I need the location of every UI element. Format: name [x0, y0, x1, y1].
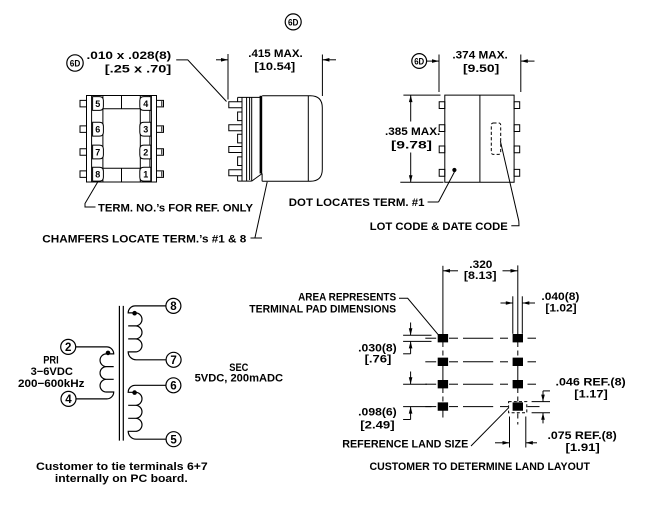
terminal stub 3 (side) — [229, 147, 242, 153]
svg-text:2: 2 — [65, 342, 71, 354]
pin 4 circle — [61, 391, 76, 406]
svg-text:LOT CODE & DATE CODE: LOT CODE & DATE CODE — [370, 221, 508, 233]
header bottom edge — [238, 180, 252, 182]
row4 centerline (dash-dot) — [425, 406, 436, 408]
svg-text:[10.54]: [10.54] — [254, 61, 295, 73]
svg-text:TERMINAL PAD DIMENSIONS: TERMINAL PAD DIMENSIONS — [249, 304, 396, 316]
svg-text:5VDC, 200mADC: 5VDC, 200mADC — [195, 373, 284, 385]
dim .030 extension lines — [403, 334, 431, 336]
header inner vertical lines — [246, 97, 248, 181]
leader from pad 8 to note — [85, 182, 98, 208]
leader from chamfer to note — [255, 182, 267, 238]
dim .030 arrow above — [410, 323, 412, 336]
pin 6 stub — [80, 126, 87, 132]
terminal pad 8 — [93, 167, 104, 181]
pin 6 circle — [166, 378, 181, 393]
balloon 6D (left) — [67, 55, 83, 71]
svg-text:PRI: PRI — [43, 355, 59, 367]
pin 8 stub — [80, 171, 87, 178]
castellation notch 3 — [238, 157, 242, 166]
svg-text:.098(6): .098(6) — [358, 407, 397, 419]
right column vertical dashed row1-row2 — [517, 342, 519, 358]
pin 3 stub — [157, 126, 164, 132]
pin 3 (right, end view) — [514, 146, 520, 153]
svg-text:AREA REPRESENTS: AREA REPRESENTS — [298, 291, 396, 303]
inner side wall lines — [91, 96, 93, 183]
bottom core strip — [103, 167, 140, 169]
dim .098 arrow above — [410, 372, 412, 385]
dim .046 arrow above with bracket — [542, 391, 544, 402]
pin 5 stub — [80, 100, 87, 107]
dim .098 extension lines — [403, 383, 427, 385]
row3 centerline (dash-dot) — [425, 383, 436, 385]
dim .320 arrow left — [443, 270, 458, 272]
svg-text:Customer to tie terminals 6+7: Customer to tie terminals 6+7 — [36, 461, 208, 473]
svg-text:.320: .320 — [469, 259, 492, 271]
pin 2 stub — [157, 149, 164, 156]
dim .075 extension line left — [509, 417, 511, 448]
dim .385 extension line top — [403, 94, 440, 96]
terminal pad 3 — [140, 122, 151, 136]
svg-text:[1.91]: [1.91] — [566, 442, 601, 454]
castellation half notch bottom — [237, 176, 239, 181]
body outline (end view) — [445, 95, 514, 182]
package body outline (top view) — [87, 96, 157, 183]
pad numbers left column 5,6,7,8 — [95, 99, 148, 180]
svg-text:CUSTOMER TO DETERMINE LAND LAY: CUSTOMER TO DETERMINE LAND LAYOUT — [370, 461, 591, 473]
leader tick from chamfer note — [251, 237, 263, 239]
svg-text:6D: 6D — [288, 17, 299, 27]
svg-text:6D: 6D — [414, 57, 424, 67]
dim .374 arrow right — [521, 60, 535, 62]
right column vertical: solid above row1 (.320 ext) — [517, 265, 519, 334]
terminal pad land row1 left — [438, 335, 447, 342]
svg-text:TERM. NO.’s FOR REF. ONLY: TERM. NO.’s FOR REF. ONLY — [98, 203, 254, 215]
svg-text:[8.13]: [8.13] — [464, 270, 497, 282]
primary winding with leads (pins 2-4) — [76, 347, 114, 399]
SECTION: schematic — [18, 298, 283, 485]
svg-text:[.76]: [.76] — [365, 353, 392, 365]
dim .415 arrow left — [216, 59, 228, 61]
castellation notch 2 — [238, 134, 242, 143]
header top edge — [238, 96, 262, 98]
body outline (side view) — [262, 96, 322, 182]
terminal pad land row3 left — [438, 381, 447, 388]
pin 5 circle — [166, 432, 181, 447]
svg-text:.046 REF.(8): .046 REF.(8) — [556, 376, 627, 388]
svg-text:.385 MAX.: .385 MAX. — [385, 126, 440, 138]
svg-text:REFERENCE LAND SIZE: REFERENCE LAND SIZE — [342, 438, 468, 450]
svg-text:[2.49]: [2.49] — [360, 420, 395, 432]
dim .320 arrow right — [503, 270, 518, 272]
svg-text:.374 MAX.: .374 MAX. — [452, 49, 507, 61]
pin 1 (right, end view) — [514, 102, 520, 109]
leader from reference land note to dashed outline — [471, 408, 509, 446]
secondary 2 polarity dot — [132, 390, 137, 395]
svg-text:6: 6 — [170, 380, 176, 392]
secondary winding 2 with leads (pins 6-5) — [128, 385, 166, 439]
dim .374 extension line right — [520, 55, 522, 93]
svg-text:5: 5 — [170, 434, 177, 446]
castellation notch 1 — [238, 112, 242, 121]
left column vertical dashed row1-row2 — [442, 342, 444, 358]
top core strip — [103, 108, 140, 110]
svg-text:[.25 x .70]: [.25 x .70] — [105, 63, 172, 75]
pin 8 circle — [166, 298, 181, 313]
terminal pad land row4 right — [513, 403, 522, 410]
SECTION: right end view — [289, 49, 535, 233]
leader from lot code note to marking area — [500, 141, 519, 226]
pin 6 (left, end view) — [439, 146, 445, 153]
svg-text:3−6VDC: 3−6VDC — [31, 366, 73, 378]
pin 2 (right, end view) — [514, 125, 520, 132]
SECTION: top view package — [42, 96, 262, 246]
dim .030 arrow below with tail — [410, 341, 412, 353]
pin 4 (right, end view) — [514, 169, 520, 176]
terminal pad 7 — [93, 145, 104, 159]
svg-text:4: 4 — [65, 394, 72, 406]
body inner vertical line near rounded end — [307, 96, 309, 182]
leader from dim text to terminal stub — [176, 60, 226, 102]
svg-text:200−600kHz: 200−600kHz — [18, 378, 85, 390]
svg-text:5: 5 — [95, 99, 100, 109]
terminal pad land row2 left — [438, 358, 447, 365]
terminal pad land row1 right — [513, 335, 522, 342]
svg-text:.075 REF.(8): .075 REF.(8) — [548, 430, 618, 442]
svg-text:.010 x .028(8): .010 x .028(8) — [87, 50, 172, 62]
dim .040 extension line right — [521, 296, 523, 334]
pin 7 (left, end view) — [439, 125, 445, 132]
terminal pad 2 — [140, 145, 151, 159]
left column vertical stub below row4 — [442, 410, 444, 417]
balloon 6D (top center) — [285, 14, 301, 30]
svg-text:8: 8 — [95, 170, 100, 180]
dim .415 extension line right — [321, 55, 323, 97]
dim .385 vertical line with arrows (broken at text) — [410, 95, 412, 121]
svg-text:8: 8 — [170, 301, 177, 313]
SECTION: middle side view — [67, 48, 336, 238]
svg-text:7: 7 — [170, 355, 176, 367]
svg-text:6: 6 — [95, 125, 100, 135]
svg-text:7: 7 — [95, 147, 100, 157]
dim .046 arrow below — [542, 413, 544, 424]
pin 8 (left, end view) — [439, 102, 445, 109]
terminal pad land row3 right — [513, 381, 522, 388]
thick separation line — [260, 96, 263, 174]
stub inner lip lines (right) — [161, 101, 163, 106]
svg-text:[9.78]: [9.78] — [391, 139, 432, 151]
terminal pad 5 — [93, 97, 104, 111]
transformer core line left — [118, 306, 120, 441]
svg-text:.415 MAX.: .415 MAX. — [248, 48, 302, 60]
dim .075 arrow left — [495, 442, 510, 444]
transformer core line right — [122, 306, 124, 441]
terminal pad 4 — [140, 97, 151, 111]
svg-text:[9.50]: [9.50] — [463, 63, 500, 75]
leader from dot note to dot — [428, 201, 439, 203]
dim .415 extension line left — [227, 54, 229, 100]
dim .374 extension line left — [438, 55, 440, 93]
svg-text:2: 2 — [143, 147, 148, 157]
pin 5 (left, end view) — [439, 169, 445, 176]
terminal pad 1 — [140, 167, 151, 181]
right column vertical dashed below row4 — [517, 414, 519, 425]
SECTION: land pattern — [249, 259, 626, 473]
terminal stub 2 (side) — [229, 125, 242, 131]
lot/date code dashed marking area — [491, 123, 500, 154]
pin 2 circle — [61, 339, 76, 354]
castellation half notch top — [237, 97, 239, 101]
terminal stub 1 (side) — [229, 102, 242, 108]
terminal pad 6 — [93, 122, 104, 136]
left column vertical dashed row3-row4 — [442, 388, 444, 403]
left column vertical: solid above row1 (.320 ext) — [442, 266, 444, 335]
terminal pad land row4 left — [438, 403, 447, 410]
svg-text:.040(8): .040(8) — [541, 291, 579, 303]
pin 4 stub — [157, 100, 164, 107]
secondary winding 1 with leads (pins 8-7) — [128, 306, 166, 360]
left column vertical solid row2-row3 — [442, 366, 444, 381]
pin 7 circle — [166, 352, 181, 367]
svg-text:[1.02]: [1.02] — [545, 303, 577, 315]
balloon 6D (right) — [412, 54, 427, 69]
right column vertical solid row2-row3 — [517, 366, 519, 381]
svg-text:1: 1 — [143, 170, 148, 180]
header left edge (castellated) — [241, 97, 243, 181]
svg-text:DOT LOCATES TERM. #1: DOT LOCATES TERM. #1 — [289, 197, 425, 209]
svg-text:3: 3 — [143, 125, 148, 135]
reference land dashed outline — [509, 402, 527, 413]
row2 centerline (dash-dot) — [425, 361, 436, 363]
body center parting line — [479, 95, 481, 182]
svg-text:4: 4 — [143, 99, 148, 109]
right column vertical dashed row3-row4 — [517, 388, 519, 403]
dim .040 arrow left — [501, 302, 513, 304]
dim .075 extension line right — [525, 417, 527, 448]
balloon link / dim .374 arrow left — [427, 60, 439, 62]
svg-text:[1.17]: [1.17] — [574, 388, 608, 400]
svg-text:CHAMFERS LOCATE TERM.’s #1 & 8: CHAMFERS LOCATE TERM.’s #1 & 8 — [42, 233, 246, 245]
terminal pad land row2 right — [513, 358, 522, 365]
dim .040 arrow right — [522, 302, 535, 304]
svg-text:6D: 6D — [70, 59, 81, 69]
dim .415 arrow right — [322, 59, 336, 61]
dim .075 arrow right — [526, 442, 537, 444]
chamfer at terminal 1/8 corner — [252, 174, 263, 182]
terminal stub 4 (side) — [229, 170, 242, 176]
SECTION: top center balloon — [285, 14, 301, 30]
secondary 1 polarity dot — [132, 311, 137, 316]
pin 7 stub — [80, 149, 87, 156]
svg-text:internally on PC board.: internally on PC board. — [55, 473, 188, 485]
dim .385 extension line bottom — [400, 181, 443, 183]
dim .046 extension lines — [532, 401, 550, 403]
primary polarity dot — [106, 351, 111, 356]
terminal 1 locating dot — [452, 168, 456, 172]
dim .098 arrow below with tail — [410, 407, 412, 420]
row1 centerline (dash-dot) — [425, 337, 436, 339]
pin 1 stub — [157, 171, 164, 178]
dim .040 extension line left — [512, 296, 514, 334]
leader from area note to pad — [399, 298, 440, 337]
